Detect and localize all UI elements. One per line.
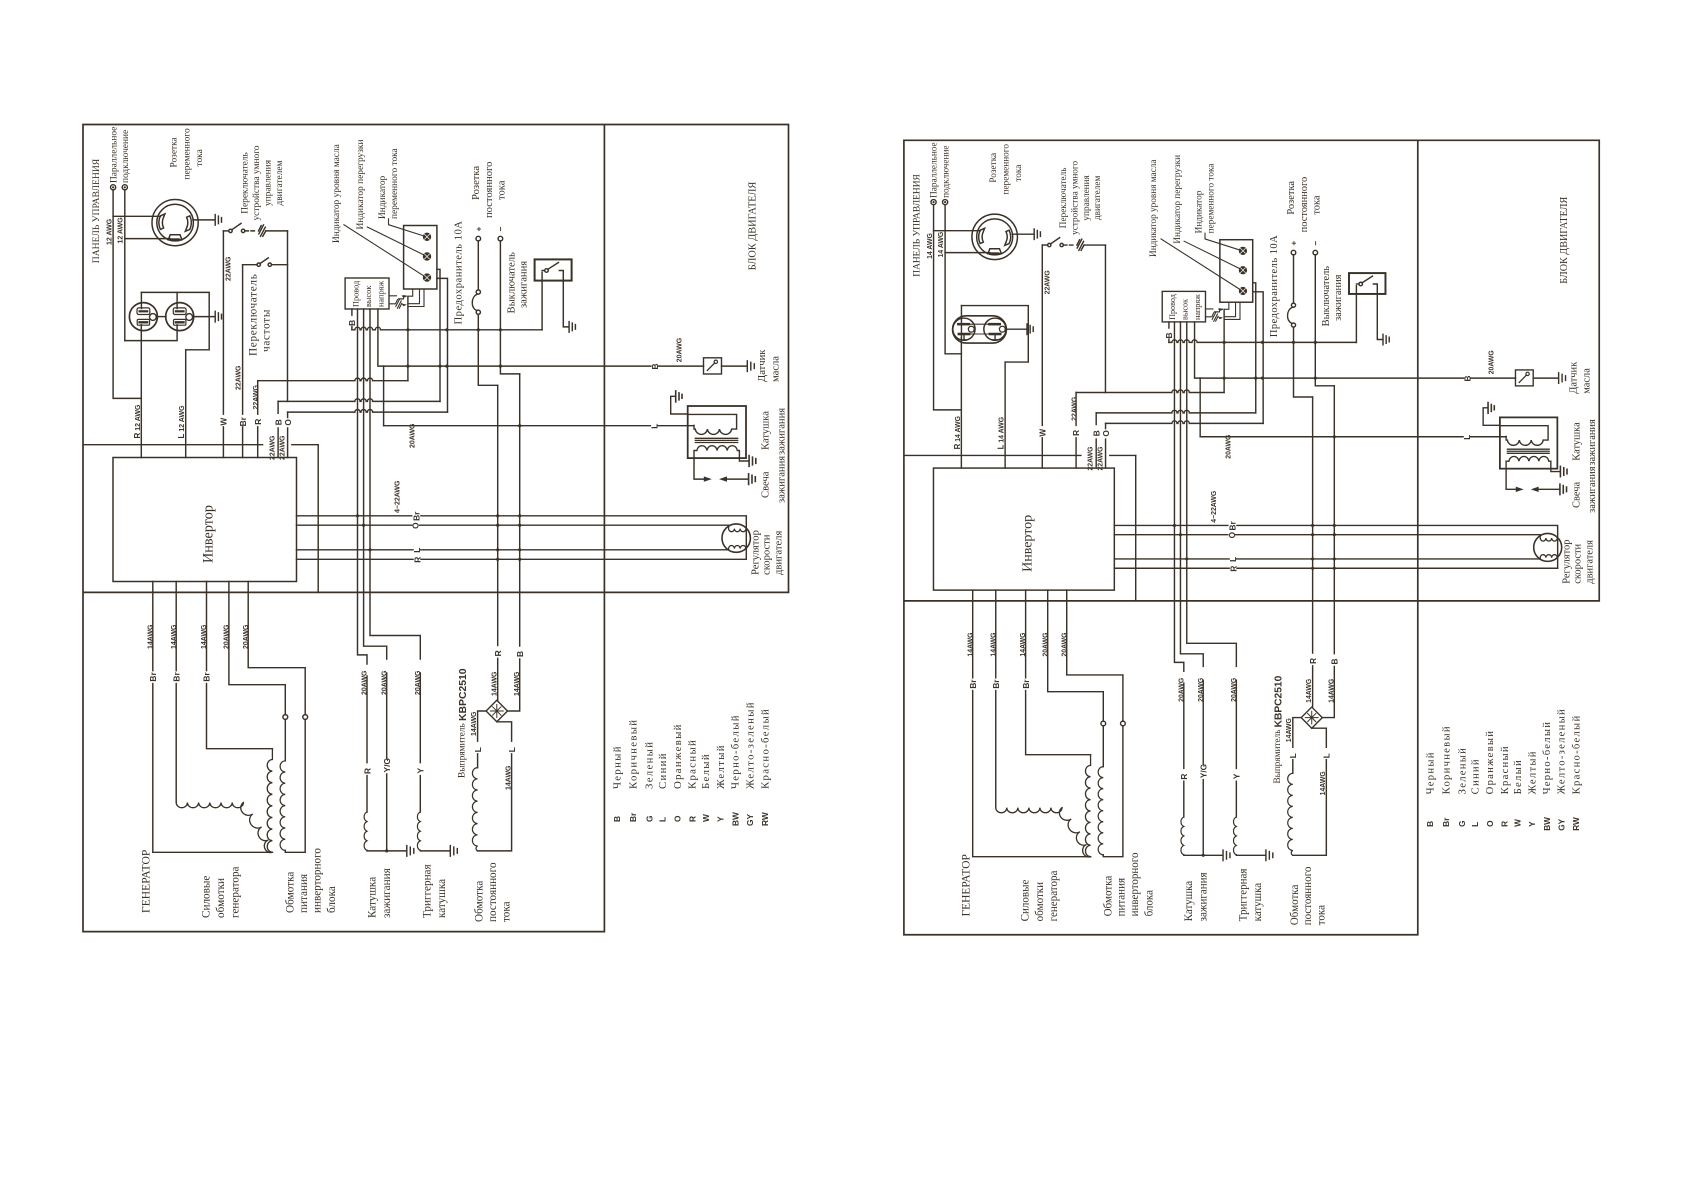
svg-text:12 AWG: 12 AWG: [118, 217, 125, 244]
svg-text:L 14 AWG: L 14 AWG: [997, 417, 1006, 449]
wire: L terminal branch to right socket bottom: [125, 325, 177, 341]
wire: right socket to ground: [193, 316, 215, 318]
socket slot wires (bottom): [958, 333, 1001, 335]
svg-text:14 AWG: 14 AWG: [938, 232, 945, 258]
svg-text:частоты: частоты: [260, 309, 272, 352]
svg-text:R 12 AWG: R 12 AWG: [133, 404, 142, 438]
wire: switch chain extension to B-line: [287, 381, 289, 402]
wire: L terminal branch to box left edge: [945, 353, 961, 355]
wire: box left edge / R feed: [960, 306, 962, 338]
duplex receptacle right socket: [166, 303, 194, 331]
svg-text:L 12 AWG: L 12 AWG: [177, 405, 186, 439]
wire: link between sockets: [156, 316, 166, 318]
wire: right socket top slot up to box: [176, 292, 178, 308]
socket slot wires (top): [958, 323, 1001, 325]
duplex right socket: [984, 318, 1006, 340]
wire Br: freq switch to inverter: [242, 265, 244, 458]
wire: left socket bottom slot down (R feed): [140, 324, 142, 326]
ground (duplex): [215, 311, 221, 322]
duplex receptacle left socket: [129, 303, 157, 331]
duplex left socket: [953, 318, 975, 340]
ground (duplex): [1027, 324, 1033, 334]
svg-text:Переключатель: Переключатель: [247, 274, 259, 357]
svg-text:R 14 AWG: R 14 AWG: [953, 416, 962, 449]
svg-text:14 AWG: 14 AWG: [927, 233, 934, 259]
D ground holes: [968, 326, 974, 332]
svg-text:Br: Br: [238, 416, 248, 426]
duplex receptacle body (stadium): [953, 316, 1007, 343]
wire: left socket top slot up to box: [140, 292, 142, 308]
svg-text:12 AWG: 12 AWG: [106, 218, 113, 245]
svg-text:22AWG: 22AWG: [236, 365, 243, 390]
frequency selector switch: [257, 263, 260, 266]
wire: receptacle to ground: [1005, 328, 1026, 330]
